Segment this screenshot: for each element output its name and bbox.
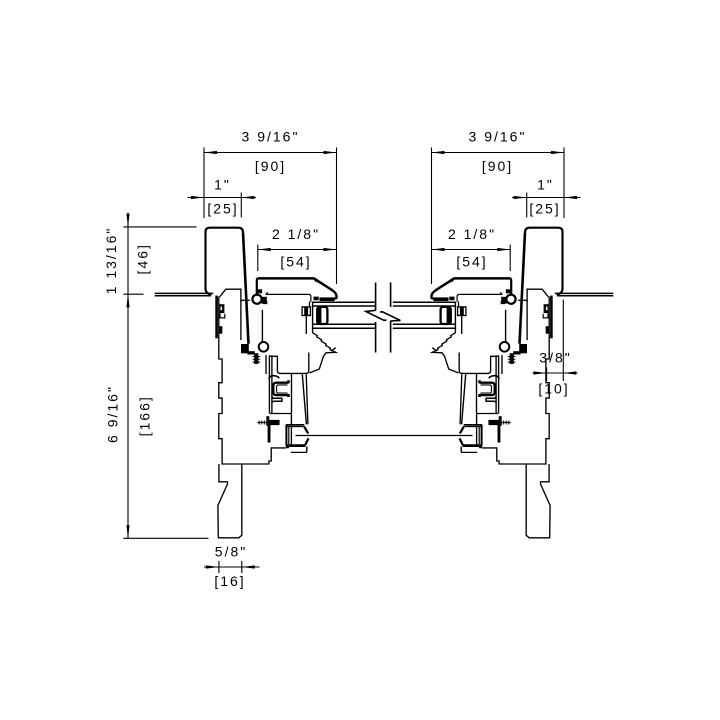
svg-text:5/8": 5/8" — [215, 544, 247, 560]
svg-text:[16]: [16] — [214, 573, 245, 589]
svg-text:3 9/16": 3 9/16" — [469, 128, 527, 144]
svg-text:1": 1" — [214, 177, 231, 193]
svg-text:2 1/8": 2 1/8" — [448, 226, 496, 242]
svg-text:1 13/16": 1 13/16" — [103, 227, 119, 295]
svg-text:[10]: [10] — [538, 380, 569, 396]
svg-text:[54]: [54] — [280, 253, 311, 269]
svg-text:[166]: [166] — [137, 395, 153, 436]
svg-text:[25]: [25] — [529, 201, 560, 217]
svg-text:1": 1" — [537, 177, 554, 193]
svg-text:[25]: [25] — [207, 201, 238, 217]
svg-text:6 9/16": 6 9/16" — [105, 385, 121, 443]
svg-text:[54]: [54] — [456, 253, 487, 269]
svg-text:3 9/16": 3 9/16" — [242, 128, 300, 144]
svg-text:2 1/8": 2 1/8" — [272, 226, 320, 242]
svg-text:[90]: [90] — [482, 158, 513, 174]
svg-text:[46]: [46] — [135, 243, 151, 274]
svg-text:[90]: [90] — [255, 158, 286, 174]
svg-text:3/8": 3/8" — [539, 350, 571, 366]
